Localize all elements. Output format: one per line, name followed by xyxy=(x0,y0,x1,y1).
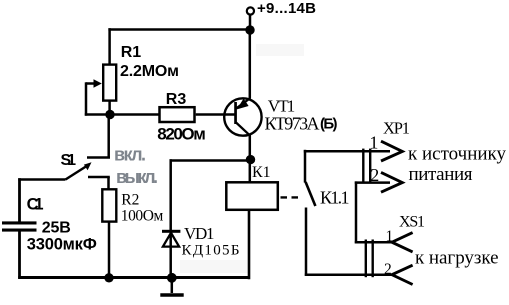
wire emitter up to top node xyxy=(249,30,252,99)
XS1 pin1 fork xyxy=(392,233,413,252)
svg-text:2.2МОм: 2.2МОм xyxy=(120,63,179,80)
wire S1 lower contact stub xyxy=(88,176,110,179)
svg-text:1: 1 xyxy=(386,228,394,245)
svg-text:+9...14В: +9...14В xyxy=(257,0,316,17)
artifact patch bottom xyxy=(180,260,248,273)
wire S1 upper contact stub xyxy=(87,156,110,159)
relay K1 box xyxy=(226,182,277,210)
svg-text:R1: R1 xyxy=(121,44,142,61)
svg-text:820Ом: 820Ом xyxy=(157,124,206,143)
wire VD1 top xyxy=(169,159,172,230)
svg-text:К1: К1 xyxy=(252,164,271,181)
wire junction row to R3 xyxy=(85,113,159,116)
node R1 bottom junction xyxy=(105,110,114,119)
XP1 pin2 arrowhead xyxy=(381,172,402,192)
R1 wiper tail wire xyxy=(85,82,88,115)
svg-text:к нагрузке: к нагрузке xyxy=(415,247,499,268)
wire K1.1 to XS1 pin2 xyxy=(305,273,392,276)
wire junction down to S1 upper contact xyxy=(107,115,110,158)
svg-text:2: 2 xyxy=(370,165,379,185)
svg-text:C1: C1 xyxy=(27,195,44,213)
VT1 emitter arrow xyxy=(237,99,249,110)
wire R2 down to rail xyxy=(108,223,111,279)
wire S1 pole to left xyxy=(18,178,65,181)
wire collector node to relay xyxy=(249,160,252,182)
svg-text:вкл.: вкл. xyxy=(114,145,146,165)
svg-text:питания: питания xyxy=(409,164,473,185)
svg-text:25В: 25В xyxy=(42,219,71,236)
svg-text:2: 2 xyxy=(384,261,392,278)
wire top rail corner down to R1 xyxy=(108,28,111,64)
svg-text:1: 1 xyxy=(369,133,378,153)
wire XP1 pin1 line xyxy=(304,150,390,153)
wire collector down xyxy=(249,135,252,161)
node top junction xyxy=(245,25,254,34)
diode VD1 xyxy=(162,230,180,233)
resistor R2 body xyxy=(102,189,116,221)
contact K1.1 lever xyxy=(306,182,316,206)
XS1 pin2 fork xyxy=(392,265,413,284)
VT1 emitter diagonal xyxy=(236,98,250,108)
svg-text:XP1: XP1 xyxy=(383,119,410,138)
svg-text:100Ом: 100Ом xyxy=(121,207,164,224)
svg-text:VD1: VD1 xyxy=(184,224,215,243)
wire top rail xyxy=(108,28,250,31)
wire lower contact down to R2 xyxy=(107,177,110,189)
svg-text:R3: R3 xyxy=(166,91,187,108)
svg-text:XS1: XS1 xyxy=(399,214,425,231)
svg-text:S1: S1 xyxy=(61,152,77,169)
contact K1.1 upper terminal xyxy=(304,150,307,183)
svg-text:к источнику: к источнику xyxy=(408,143,507,164)
dashed mechanical link xyxy=(281,196,300,198)
VT1 base bar xyxy=(234,102,237,124)
wire left column down to C1 xyxy=(18,178,21,221)
wire bottom rail xyxy=(18,276,250,279)
node R2 rail junction xyxy=(104,273,113,282)
R1 wiper arrow xyxy=(86,82,96,85)
wire R3 to base xyxy=(196,113,235,116)
svg-text:КД105Б: КД105Б xyxy=(182,243,240,259)
wire terminal to top node xyxy=(249,15,252,30)
svg-text:R2: R2 xyxy=(121,191,139,208)
svg-text:выкл.: выкл. xyxy=(116,167,158,187)
connector XP1 body lines xyxy=(362,149,364,183)
wire XS1 pin1 line xyxy=(355,241,392,244)
svg-text:(Б): (Б) xyxy=(320,115,338,132)
capacitor C1 plates xyxy=(2,221,37,224)
terminal +9...14V xyxy=(247,7,254,14)
svg-text:3300мкФ: 3300мкФ xyxy=(27,236,97,254)
wire C1 bottom down to rail xyxy=(18,232,21,279)
resistor R1 body xyxy=(103,65,116,101)
svg-text:К1.1: К1.1 xyxy=(320,187,350,207)
wire XP1 pin2 to XS1 pin1 vertical xyxy=(355,181,358,243)
svg-text:КТ973А: КТ973А xyxy=(265,113,320,133)
contact K1.1 lower terminal xyxy=(305,208,308,276)
wire relay bottom to rail xyxy=(248,211,251,279)
node VD1 rail junction xyxy=(167,273,177,283)
wire XP1 pin2 line xyxy=(355,181,390,184)
artifact patch top xyxy=(256,44,304,56)
XP1 pin1 arrowhead xyxy=(381,141,402,161)
transistor VT1 xyxy=(224,98,261,135)
wire collector node to VD1 branch xyxy=(170,159,251,162)
switch S1 lever xyxy=(66,166,88,180)
VT1 collector diagonal xyxy=(236,123,250,136)
wire R1 bottom stub xyxy=(108,102,111,115)
resistor R3 body xyxy=(160,107,195,122)
node collector junction xyxy=(246,155,255,164)
connector XS1 body lines xyxy=(365,240,367,278)
ground xyxy=(171,278,174,293)
